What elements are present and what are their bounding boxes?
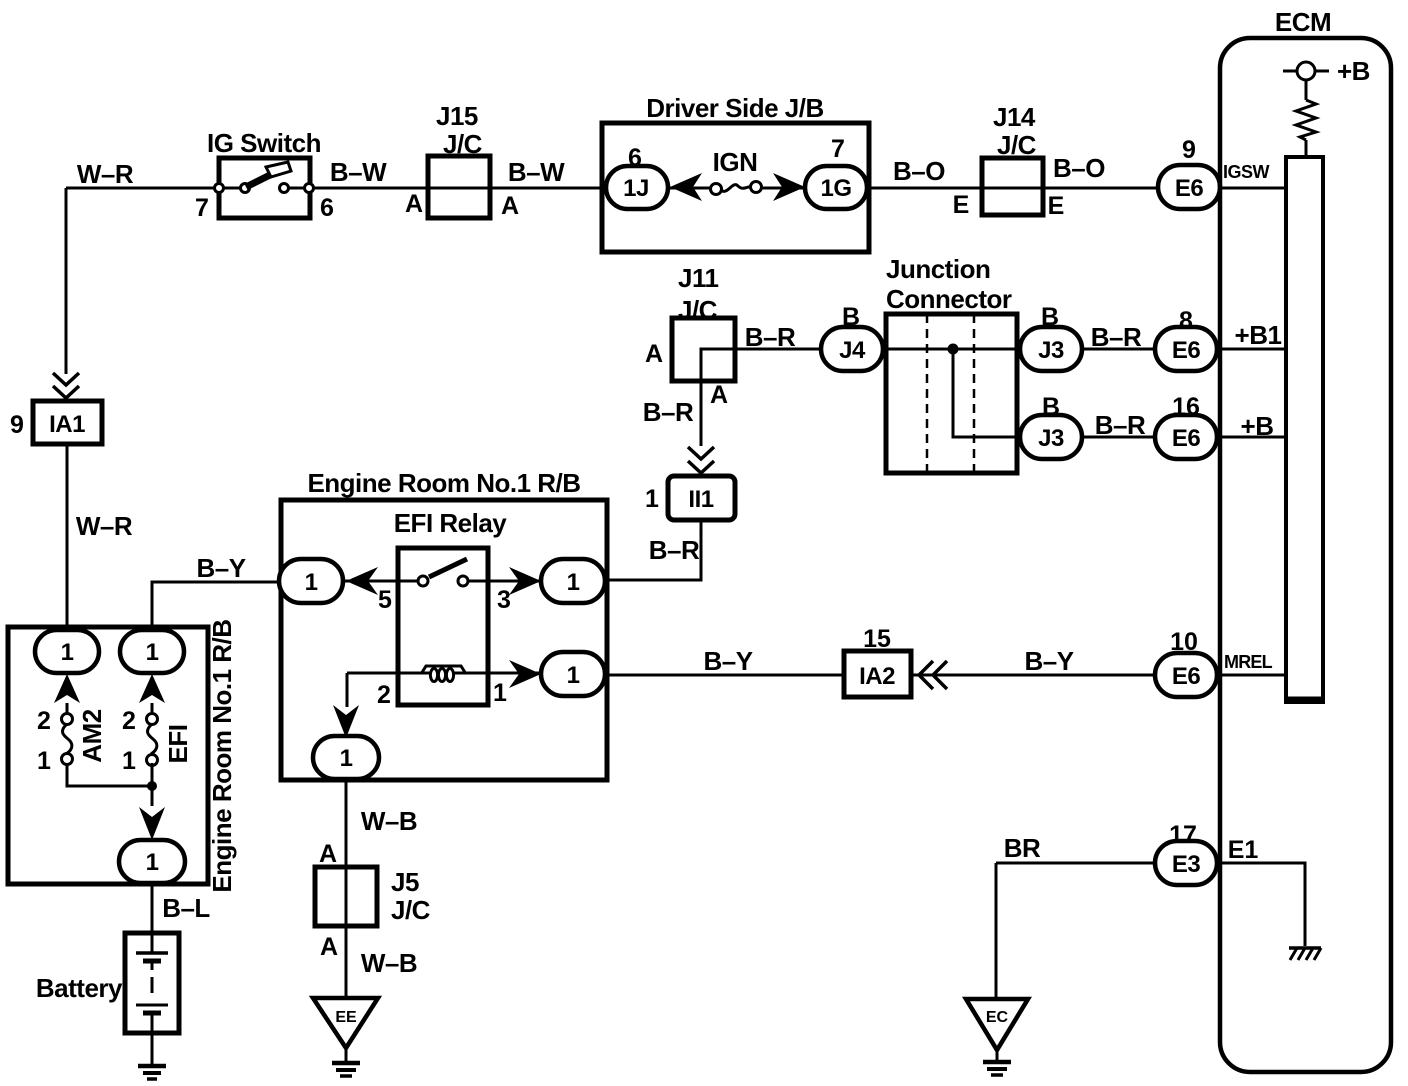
arrow down to battery oval bbox=[139, 807, 165, 840]
svg-text:Junction: Junction bbox=[886, 254, 990, 284]
pin 8 label bbox=[1179, 307, 1193, 335]
svg-text:E6: E6 bbox=[1172, 337, 1201, 364]
connector E6 pin 9 oval bbox=[1158, 165, 1220, 209]
arrow right to top right oval bbox=[509, 567, 541, 595]
Engine Room No.1 R/B relay box bbox=[281, 468, 607, 780]
AM2 fuse name rotated bbox=[77, 709, 107, 762]
Junction Connector title bbox=[886, 254, 1012, 314]
svg-text:Engine Room No.1 R/B: Engine Room No.1 R/B bbox=[307, 468, 580, 498]
svg-text:1: 1 bbox=[645, 485, 659, 513]
+B label top bbox=[1337, 56, 1370, 86]
svg-text:IGN: IGN bbox=[713, 147, 758, 177]
resistor inside ECM bbox=[1296, 100, 1316, 140]
junction connector J14 J/C box bbox=[982, 102, 1043, 215]
wire resistor to bar bbox=[1305, 140, 1308, 157]
IG switch blade bbox=[246, 162, 291, 187]
svg-text:J5: J5 bbox=[391, 867, 419, 897]
junction connector J11 J/C bbox=[678, 263, 718, 325]
MREL pin label bbox=[1224, 652, 1273, 672]
+B label mid bbox=[1241, 411, 1274, 441]
chevron arrow down into II1 bbox=[688, 447, 714, 473]
pin 2 label EFI bbox=[122, 707, 136, 735]
svg-text:J/C: J/C bbox=[997, 130, 1037, 160]
label B-O bbox=[893, 156, 945, 186]
IGSW pin label bbox=[1223, 162, 1270, 182]
+B1 label bbox=[1235, 320, 1282, 350]
svg-text:EFI Relay: EFI Relay bbox=[394, 508, 508, 538]
svg-text:+B: +B bbox=[1337, 56, 1370, 86]
svg-text:A: A bbox=[710, 381, 728, 409]
bottom oval 1 of power box bbox=[119, 840, 185, 883]
svg-text:B–Y: B–Y bbox=[703, 646, 752, 676]
svg-text:J3: J3 bbox=[1038, 337, 1064, 364]
IG switch terminal 7 bbox=[215, 184, 250, 193]
pin 10 label bbox=[1170, 628, 1198, 656]
wire E6 16 to bar bbox=[1217, 436, 1286, 439]
svg-text:1G: 1G bbox=[820, 175, 851, 202]
wire left vertical W-R down to IA1 bbox=[65, 188, 68, 374]
svg-text:IA2: IA2 bbox=[859, 663, 895, 690]
svg-text:J/C: J/C bbox=[443, 129, 483, 159]
wire relay to right oval bbox=[468, 580, 541, 583]
wire BR down to EC ground bbox=[995, 863, 998, 999]
svg-text:1: 1 bbox=[340, 745, 353, 772]
label W-R bbox=[77, 159, 134, 189]
wire lower J3 to E6 pin 16 bbox=[1082, 436, 1158, 439]
svg-text:BR: BR bbox=[1004, 833, 1041, 863]
connector E6 pin 16 oval bbox=[1155, 415, 1217, 459]
svg-text:IGSW: IGSW bbox=[1223, 162, 1270, 182]
IGN switch contacts bbox=[711, 182, 762, 195]
IGN label bbox=[713, 147, 758, 177]
relay switch blade bbox=[429, 559, 467, 577]
wire E3 to internal ground bbox=[1217, 863, 1305, 946]
svg-text:A: A bbox=[501, 192, 519, 220]
svg-text:J14: J14 bbox=[993, 102, 1036, 132]
wire left oval to relay bbox=[343, 580, 423, 583]
pin 9 label left of IA1 bbox=[10, 411, 24, 439]
svg-text:E1: E1 bbox=[1228, 836, 1259, 864]
wire W-R top horizontal from corner to IG switch bbox=[66, 187, 245, 190]
pin B above J4 bbox=[842, 303, 860, 331]
svg-text:1: 1 bbox=[61, 639, 74, 666]
pin 7 label above 1G bbox=[831, 135, 845, 163]
svg-text:B–W: B–W bbox=[330, 157, 387, 187]
svg-text:W–B: W–B bbox=[361, 948, 417, 978]
IG Switch box bbox=[207, 128, 321, 218]
label W-R 2 bbox=[76, 511, 133, 541]
svg-text:J11: J11 bbox=[678, 263, 718, 293]
EFI fuse name rotated bbox=[163, 725, 193, 764]
connector J4 oval bbox=[821, 327, 883, 371]
wire battery to ground bbox=[151, 1033, 154, 1064]
pin 1 label AM2 bbox=[37, 747, 51, 775]
arrow down inside relay box bbox=[333, 705, 359, 738]
label B-W bbox=[330, 157, 387, 187]
connector J3 upper oval bbox=[1020, 327, 1082, 371]
label B-R below II1 bbox=[649, 535, 700, 565]
svg-text:7: 7 bbox=[195, 194, 209, 222]
wire from +B to resistor bbox=[1305, 80, 1308, 100]
wire E6 10 to bar bbox=[1217, 674, 1286, 677]
fuse EFI top oval 1 bbox=[120, 630, 184, 673]
wire E6 8 to bar bbox=[1217, 348, 1286, 351]
svg-text:W–R: W–R bbox=[77, 159, 134, 189]
label B-Y bbox=[196, 553, 245, 583]
pin B above lower J3 bbox=[1042, 393, 1060, 421]
wire top main from IG switch to Driver Side J/B bbox=[284, 187, 716, 190]
svg-text:W–B: W–B bbox=[361, 806, 417, 836]
svg-text:B–R: B–R bbox=[649, 535, 700, 565]
svg-text:B–Y: B–Y bbox=[1024, 646, 1073, 676]
svg-text:B–R: B–R bbox=[643, 397, 694, 427]
pin 2 label bbox=[377, 681, 391, 709]
pin A below J11 bbox=[710, 381, 728, 409]
E1 pin label bbox=[1228, 836, 1259, 864]
wire J4 through junction box bbox=[883, 348, 1020, 351]
wire IA1 to AM2 fuse bbox=[66, 444, 69, 630]
svg-text:B–O: B–O bbox=[1053, 153, 1105, 183]
arrow right at 1G bbox=[773, 173, 805, 201]
label B-L bbox=[162, 893, 210, 923]
wire down from coil corner bbox=[346, 673, 349, 707]
wire B-Y from EFI fuse up to relay box bbox=[152, 582, 281, 630]
svg-text:Connector: Connector bbox=[886, 284, 1012, 314]
svg-text:IG Switch: IG Switch bbox=[207, 128, 321, 158]
left top oval 1 bbox=[279, 559, 343, 603]
label W-B 2 bbox=[361, 948, 417, 978]
pin 15 label bbox=[863, 625, 891, 653]
svg-text:MREL: MREL bbox=[1224, 652, 1273, 672]
ECM outline bbox=[1220, 7, 1391, 1072]
connector E6 pin 8 oval bbox=[1155, 327, 1217, 371]
J11 box bbox=[672, 318, 735, 381]
svg-text:7: 7 bbox=[831, 135, 845, 163]
wire relay bottom oval down to EE ground bbox=[345, 779, 348, 998]
fuse EFI symbol bbox=[147, 703, 158, 766]
svg-text:J/C: J/C bbox=[391, 895, 431, 925]
svg-text:1: 1 bbox=[146, 849, 159, 876]
pin 6 label above 1J bbox=[628, 144, 642, 172]
junction connector J15 J/C box bbox=[428, 101, 490, 218]
svg-text:2: 2 bbox=[122, 707, 136, 735]
svg-text:E6: E6 bbox=[1172, 663, 1201, 690]
svg-text:Battery: Battery bbox=[36, 973, 123, 1003]
svg-text:ECM: ECM bbox=[1275, 7, 1331, 37]
connector E6 pin 10 oval bbox=[1155, 653, 1217, 697]
pin B above upper J3 bbox=[1041, 303, 1059, 331]
svg-text:IA1: IA1 bbox=[49, 411, 85, 438]
wire J11 down bbox=[700, 381, 703, 446]
pin A below J5 bbox=[320, 933, 338, 961]
svg-text:W–R: W–R bbox=[76, 511, 133, 541]
label B-W 2 bbox=[508, 157, 565, 187]
pin 1 label EFI bbox=[122, 747, 136, 775]
ground below EE bbox=[332, 1063, 360, 1076]
ground below EC bbox=[983, 1062, 1011, 1075]
Engine Room No.1 R/B power box bbox=[8, 627, 208, 884]
svg-text:EE: EE bbox=[335, 1009, 357, 1026]
label BR bbox=[1004, 833, 1041, 863]
pin 5 label bbox=[378, 586, 392, 614]
junction dot in box bbox=[948, 344, 959, 355]
junction connector J5 J/C box bbox=[315, 867, 431, 926]
arrow left at 1J bbox=[670, 173, 702, 201]
pin 1 label left of II1 bbox=[645, 485, 659, 513]
pin 1 label bbox=[493, 679, 507, 707]
svg-text:J15: J15 bbox=[436, 101, 478, 131]
svg-text:E6: E6 bbox=[1175, 175, 1204, 202]
label B-R vertical wire bbox=[643, 397, 694, 427]
label B-R lower bbox=[1095, 410, 1146, 440]
svg-text:E3: E3 bbox=[1172, 851, 1201, 878]
connector II1 box bbox=[668, 476, 735, 520]
label B-Y right bbox=[1024, 646, 1073, 676]
wire dot down right to lower J3 bbox=[953, 349, 1020, 437]
svg-text:1: 1 bbox=[305, 569, 318, 596]
label W-B bbox=[361, 806, 417, 836]
bottom oval 1 of relay box bbox=[313, 736, 379, 779]
Driver Side J/B box bbox=[602, 93, 869, 252]
svg-text:3: 3 bbox=[497, 586, 511, 614]
arrow up at AM2 bbox=[54, 674, 80, 703]
pin A right of J15 bbox=[501, 192, 519, 220]
right top oval 1 bbox=[541, 559, 605, 603]
svg-text:EFI: EFI bbox=[163, 725, 193, 764]
svg-text:+B1: +B1 bbox=[1235, 320, 1282, 350]
+B terminal circle bbox=[1283, 62, 1329, 80]
svg-text:1: 1 bbox=[567, 662, 580, 689]
svg-text:E: E bbox=[1048, 192, 1065, 220]
Junction Connector box bbox=[886, 314, 1017, 473]
connector 1J oval bbox=[606, 166, 668, 209]
relay coil bbox=[421, 666, 466, 682]
pin E left of J14 bbox=[953, 191, 970, 219]
chevron arrow down into IA1 bbox=[53, 373, 79, 398]
svg-text:E: E bbox=[953, 191, 970, 219]
pin A left of J11 bbox=[645, 340, 663, 368]
label B-R to J4 bbox=[745, 322, 796, 352]
wire to battery bbox=[151, 883, 154, 933]
svg-text:2: 2 bbox=[377, 681, 391, 709]
wire II1 down to relay right oval bbox=[605, 520, 701, 580]
pin A left of J15 bbox=[405, 190, 423, 218]
battery cell symbol bbox=[136, 933, 168, 1033]
fuse AM2 top oval 1 bbox=[35, 630, 99, 673]
svg-text:B–R: B–R bbox=[1091, 322, 1142, 352]
fuse AM2 symbol bbox=[62, 703, 73, 765]
wire J3 to E6 pin 8 bbox=[1082, 348, 1158, 351]
wire top main from IGN switch right to ECM bar bbox=[756, 187, 1286, 190]
ECM internal bar bbox=[1286, 157, 1323, 702]
connector 1G oval bbox=[805, 166, 867, 209]
svg-text:9: 9 bbox=[10, 411, 24, 439]
svg-text:EC: EC bbox=[986, 1009, 1009, 1026]
svg-text:1: 1 bbox=[493, 679, 507, 707]
svg-text:9: 9 bbox=[1182, 136, 1196, 164]
relay coil wire bbox=[347, 672, 541, 675]
EFI relay box bbox=[398, 548, 488, 705]
svg-text:J4: J4 bbox=[839, 337, 866, 364]
svg-text:J3: J3 bbox=[1038, 425, 1064, 452]
label B-R upper bbox=[1091, 322, 1142, 352]
pin A above J5 bbox=[319, 840, 337, 868]
connector J3 lower oval bbox=[1020, 415, 1082, 459]
ground triangle EE bbox=[313, 998, 378, 1048]
Battery box bbox=[36, 933, 179, 1033]
wire IA2 to E6 pin 10 bbox=[911, 674, 1158, 677]
junction dot bbox=[147, 781, 157, 791]
relay switch contacts bbox=[418, 576, 468, 586]
pin E right of J14 bbox=[1048, 192, 1065, 220]
pin 17 label bbox=[1169, 821, 1197, 849]
svg-text:A: A bbox=[320, 933, 338, 961]
svg-text:B–R: B–R bbox=[1095, 410, 1146, 440]
IG switch terminal 6 bbox=[280, 184, 314, 193]
label B-O 2 bbox=[1053, 153, 1105, 183]
arrow right to lower right oval bbox=[509, 660, 541, 688]
svg-text:1: 1 bbox=[567, 569, 580, 596]
svg-text:A: A bbox=[645, 340, 663, 368]
ground below battery bbox=[138, 1066, 166, 1079]
pin 9 label above E6 bbox=[1182, 136, 1196, 164]
svg-text:B–O: B–O bbox=[893, 156, 945, 186]
wire J11 to J4 bbox=[735, 348, 821, 351]
svg-text:+B: +B bbox=[1241, 411, 1274, 441]
arrow left at relay pin 5 bbox=[346, 567, 378, 595]
svg-text:1: 1 bbox=[146, 639, 159, 666]
svg-text:II1: II1 bbox=[688, 486, 713, 513]
wire EE to ground bbox=[345, 1048, 348, 1062]
rotated title Engine Room No.1 R/B bbox=[207, 619, 237, 892]
arrow up at EFI bbox=[139, 674, 165, 703]
pin 3 label bbox=[497, 586, 511, 614]
pin 7 label bbox=[195, 194, 209, 222]
svg-text:A: A bbox=[405, 190, 423, 218]
svg-text:2: 2 bbox=[37, 707, 51, 735]
chassis ground inside ECM bbox=[1289, 948, 1321, 960]
pin 6 label bbox=[320, 194, 334, 222]
wire relay to IA2 bbox=[605, 674, 844, 677]
connector IA1 box bbox=[33, 401, 102, 444]
EFI Relay title bbox=[394, 508, 508, 538]
pin 16 label bbox=[1172, 393, 1200, 421]
svg-text:B–R: B–R bbox=[745, 322, 796, 352]
label B-Y left of IA2 bbox=[703, 646, 752, 676]
connector E3 oval bbox=[1155, 841, 1217, 885]
lower right oval 1 bbox=[541, 652, 605, 696]
ground triangle EC bbox=[966, 999, 1028, 1050]
svg-text:5: 5 bbox=[378, 586, 392, 614]
connector IA2 box bbox=[844, 651, 911, 697]
dashed line 2 bbox=[973, 314, 976, 473]
chevron arrow left at IA2 bbox=[919, 661, 947, 689]
svg-text:B–Y: B–Y bbox=[196, 553, 245, 583]
svg-text:A: A bbox=[319, 840, 337, 868]
svg-text:AM2: AM2 bbox=[77, 709, 107, 762]
pin 2 label AM2 bbox=[37, 707, 51, 735]
svg-text:1J: 1J bbox=[623, 175, 649, 202]
svg-text:B–W: B–W bbox=[508, 157, 565, 187]
dashed line 1 bbox=[926, 314, 929, 473]
wire EFI to junction bbox=[151, 763, 154, 806]
svg-text:Engine Room No.1 R/B: Engine Room No.1 R/B bbox=[207, 619, 237, 892]
wire AM2 to junction bbox=[67, 763, 152, 786]
svg-text:6: 6 bbox=[320, 194, 334, 222]
IGN switch squiggle bbox=[721, 185, 751, 192]
svg-text:E6: E6 bbox=[1172, 425, 1201, 452]
svg-text:1: 1 bbox=[122, 747, 136, 775]
svg-text:B–L: B–L bbox=[162, 893, 210, 923]
wire BR corner to E3 bbox=[996, 862, 1158, 865]
svg-text:Driver Side J/B: Driver Side J/B bbox=[646, 93, 823, 123]
svg-text:1: 1 bbox=[37, 747, 51, 775]
J11 internal wire bbox=[701, 349, 735, 381]
wire EC to ground bbox=[996, 1050, 999, 1060]
